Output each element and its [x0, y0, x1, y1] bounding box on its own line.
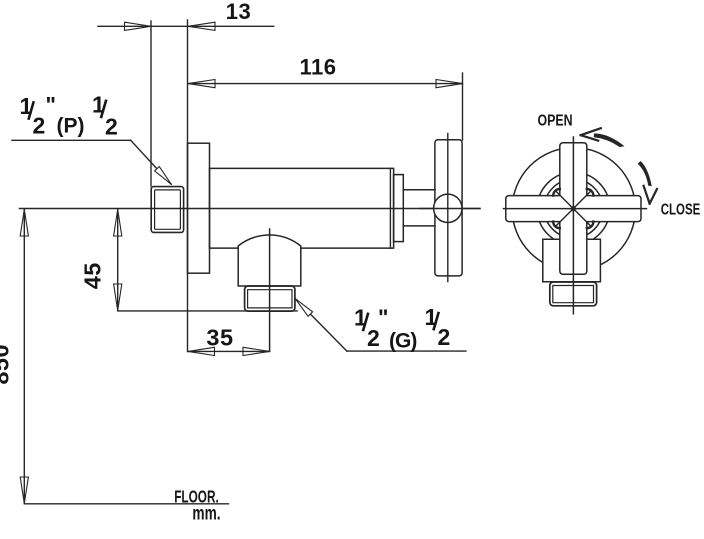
fraction 1: slash	[363, 313, 368, 332]
dim 35: dimension line	[188, 350, 270, 352]
handle axis centerline (side view, redrawn over hub)	[447, 134, 449, 282]
dim 116: extension line right	[462, 73, 464, 140]
dim 116: arrowhead left	[188, 73, 463, 140]
front view: nipple outer	[550, 282, 597, 306]
svg-text:45: 45	[80, 262, 106, 289]
front view: X miter diagonals	[556, 191, 592, 227]
stem (side view)	[403, 190, 435, 226]
dim 850: arrowhead top (points up)	[20, 209, 28, 503]
svg-text:2: 2	[438, 324, 451, 350]
outlet body sides (side view)	[238, 248, 301, 286]
dim 45: extension line at outlet bottom	[118, 310, 297, 312]
wall nut inner line	[155, 190, 181, 229]
dim 45: arrowhead top (points up)	[114, 209, 297, 311]
dim 13: arrowhead left (points right at wall left face)	[98, 20, 274, 352]
dim 35: arrowhead right	[243, 347, 270, 355]
front view: big circle (handle flange)	[512, 148, 635, 271]
valve body (main cylinder)	[210, 168, 394, 248]
leader P arrowhead	[155, 167, 172, 185]
dim 850: arrowhead bottom (points down)	[20, 477, 28, 504]
svg-text:": "	[378, 305, 388, 330]
valve body end ring line	[389, 168, 391, 248]
front view: vertical centerline	[572, 137, 574, 314]
svg-text:": "	[46, 93, 56, 118]
front view: hub inner fillet arcs	[553, 189, 593, 228]
svg-text:(G): (G)	[389, 330, 416, 353]
front view: cross handle (4-arm)	[506, 143, 641, 274]
front view: hub ring outer	[537, 172, 610, 245]
dim 13: dimension line	[98, 25, 274, 27]
dim 45: dimension line	[117, 209, 119, 310]
bonnet (side view)	[394, 175, 404, 242]
leader line for G label	[295, 299, 466, 351]
label 1/2"(P)1/2	[20, 91, 118, 139]
outlet nipple (side view) inner lines	[248, 290, 292, 308]
svg-text:35: 35	[206, 325, 233, 351]
main axis through hub (redrawn)	[420, 208, 480, 210]
dim 45: arrowhead bottom (points down)	[114, 284, 122, 311]
fraction 1: slash	[28, 101, 33, 120]
svg-text:13: 13	[226, 0, 251, 24]
floor line	[24, 503, 228, 505]
svg-text:OPEN: OPEN	[537, 111, 572, 129]
leader G arrowhead	[295, 299, 312, 317]
svg-text:(P): (P)	[57, 115, 85, 138]
CLOSE swoosh arrow	[638, 161, 657, 204]
dim 850: dimension line	[23, 209, 25, 503]
svg-text:mm.: mm.	[192, 502, 220, 524]
main horizontal centerline (valve axis)	[20, 208, 481, 210]
label 1/2"(G)1/2	[354, 304, 450, 353]
escutcheon flange	[188, 143, 210, 273]
front view: center dot	[571, 206, 576, 211]
dim 35: arrowhead left	[188, 347, 270, 355]
OPEN swoosh arrow	[581, 128, 625, 147]
dim 116: dimension line	[188, 83, 463, 85]
handle bar (side view)	[435, 140, 462, 276]
outlet vertical centerline (side view)	[269, 229, 271, 351]
fraction 2: slash	[433, 312, 438, 331]
svg-text:850: 850	[0, 344, 14, 385]
dim 13: extension line left (wall left face)	[150, 21, 152, 186]
front view: outlet box	[543, 239, 601, 282]
leader line for P label	[12, 140, 171, 184]
svg-text:116: 116	[300, 55, 337, 80]
dim 13: arrowhead right (points left at wall right face)	[188, 22, 215, 30]
svg-text:2: 2	[33, 113, 46, 139]
svg-text:CLOSE: CLOSE	[661, 201, 700, 218]
svg-text:2: 2	[105, 114, 118, 140]
front view: nipple inner lines	[553, 286, 594, 303]
outlet dome (side view)	[238, 235, 301, 248]
outlet nipple (side view) outer	[245, 286, 295, 311]
fraction 2: slash	[101, 100, 106, 119]
dim 116: arrowhead right	[436, 80, 463, 88]
front view: hub ring inner	[544, 179, 603, 238]
dim 13: extension line right (wall right face / flange left, long)	[187, 20, 189, 352]
front view: horizontal centerline	[504, 208, 647, 210]
handle hub circle (side view)	[434, 194, 462, 222]
wall nut (1/2 P connector) outer	[151, 187, 183, 233]
